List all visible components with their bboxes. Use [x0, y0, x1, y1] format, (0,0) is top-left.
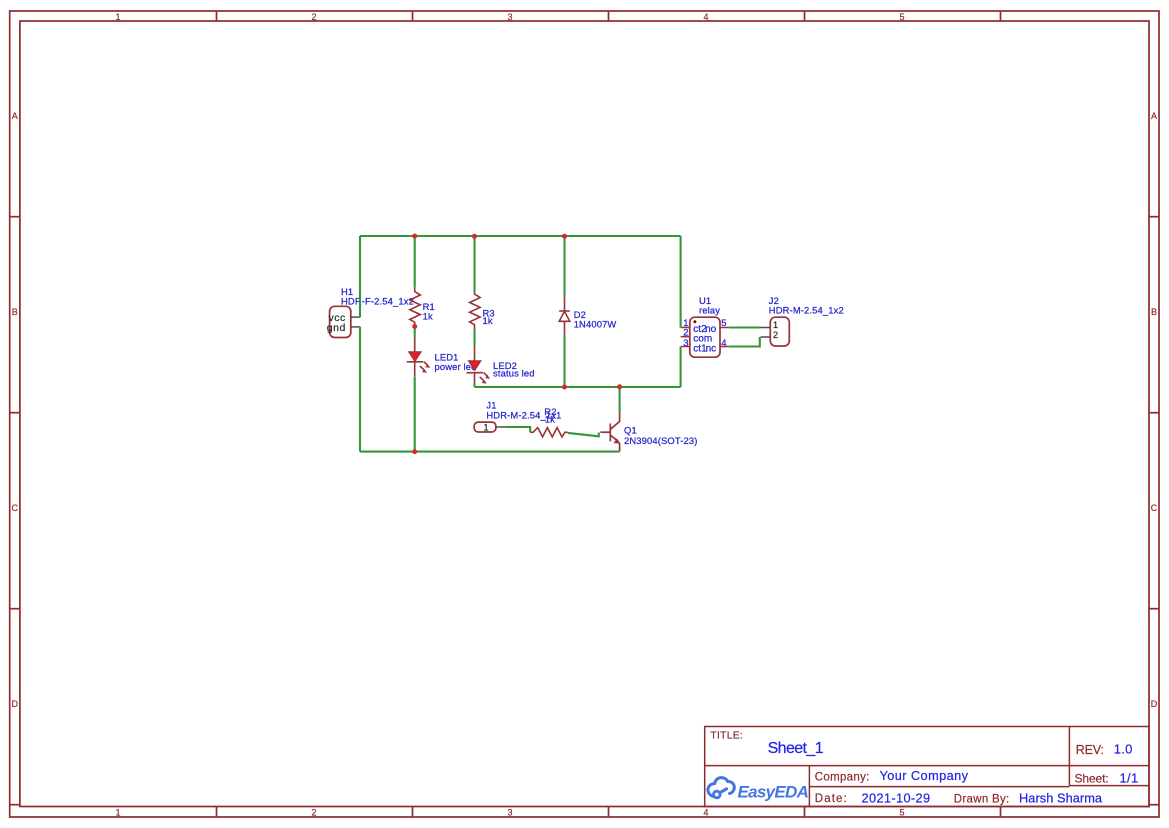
svg-text:nc: nc — [706, 343, 717, 354]
svg-text:1: 1 — [115, 12, 120, 22]
svg-text:C: C — [12, 503, 19, 513]
svg-text:2: 2 — [773, 330, 778, 341]
svg-text:1/1: 1/1 — [1120, 771, 1139, 786]
svg-text:Sheet:: Sheet: — [1075, 772, 1109, 786]
svg-text:D: D — [1151, 699, 1158, 709]
svg-text:2021-10-29: 2021-10-29 — [862, 790, 931, 805]
svg-text:B: B — [1151, 307, 1157, 317]
svg-text:EasyEDA: EasyEDA — [738, 783, 809, 802]
svg-text:HDR-M-2.54_1x2: HDR-M-2.54_1x2 — [769, 304, 844, 315]
svg-text:status led: status led — [493, 367, 535, 378]
svg-text:5: 5 — [899, 12, 904, 22]
svg-text:C: C — [1151, 503, 1158, 513]
svg-text:1k: 1k — [423, 310, 433, 321]
svg-text:Sheet_1: Sheet_1 — [768, 740, 824, 757]
svg-text:Drawn By:: Drawn By: — [954, 794, 1010, 806]
svg-text:relay: relay — [699, 304, 720, 315]
svg-text:A: A — [1151, 111, 1157, 121]
svg-text:TITLE:: TITLE: — [710, 731, 743, 742]
svg-text:Harsh Sharma: Harsh Sharma — [1019, 791, 1103, 806]
svg-text:gnd: gnd — [327, 322, 346, 334]
svg-text:Date:: Date: — [815, 793, 848, 805]
svg-text:D: D — [12, 699, 19, 709]
svg-text:1k: 1k — [545, 414, 555, 425]
svg-text:REV:: REV: — [1076, 743, 1104, 757]
svg-text:2N3904(SOT-23): 2N3904(SOT-23) — [624, 435, 698, 446]
svg-text:1.0: 1.0 — [1114, 742, 1133, 757]
svg-text:Company:: Company: — [815, 771, 870, 783]
svg-text:2: 2 — [311, 12, 316, 22]
svg-text:3: 3 — [507, 808, 512, 818]
svg-text:1: 1 — [483, 423, 488, 434]
svg-text:3: 3 — [683, 338, 688, 349]
svg-text:B: B — [12, 307, 18, 317]
svg-text:HDR-F-2.54_1x2: HDR-F-2.54_1x2 — [341, 296, 414, 307]
svg-text:2: 2 — [311, 808, 316, 818]
svg-text:1N4007W: 1N4007W — [574, 319, 617, 330]
svg-text:4: 4 — [703, 12, 708, 22]
svg-text:5: 5 — [899, 808, 904, 818]
svg-text:A: A — [12, 111, 18, 121]
svg-text:3: 3 — [507, 12, 512, 22]
svg-text:1k: 1k — [483, 315, 493, 326]
svg-text:1: 1 — [115, 808, 120, 818]
svg-text:Your Company: Your Company — [880, 768, 969, 783]
svg-text:4: 4 — [703, 808, 708, 818]
